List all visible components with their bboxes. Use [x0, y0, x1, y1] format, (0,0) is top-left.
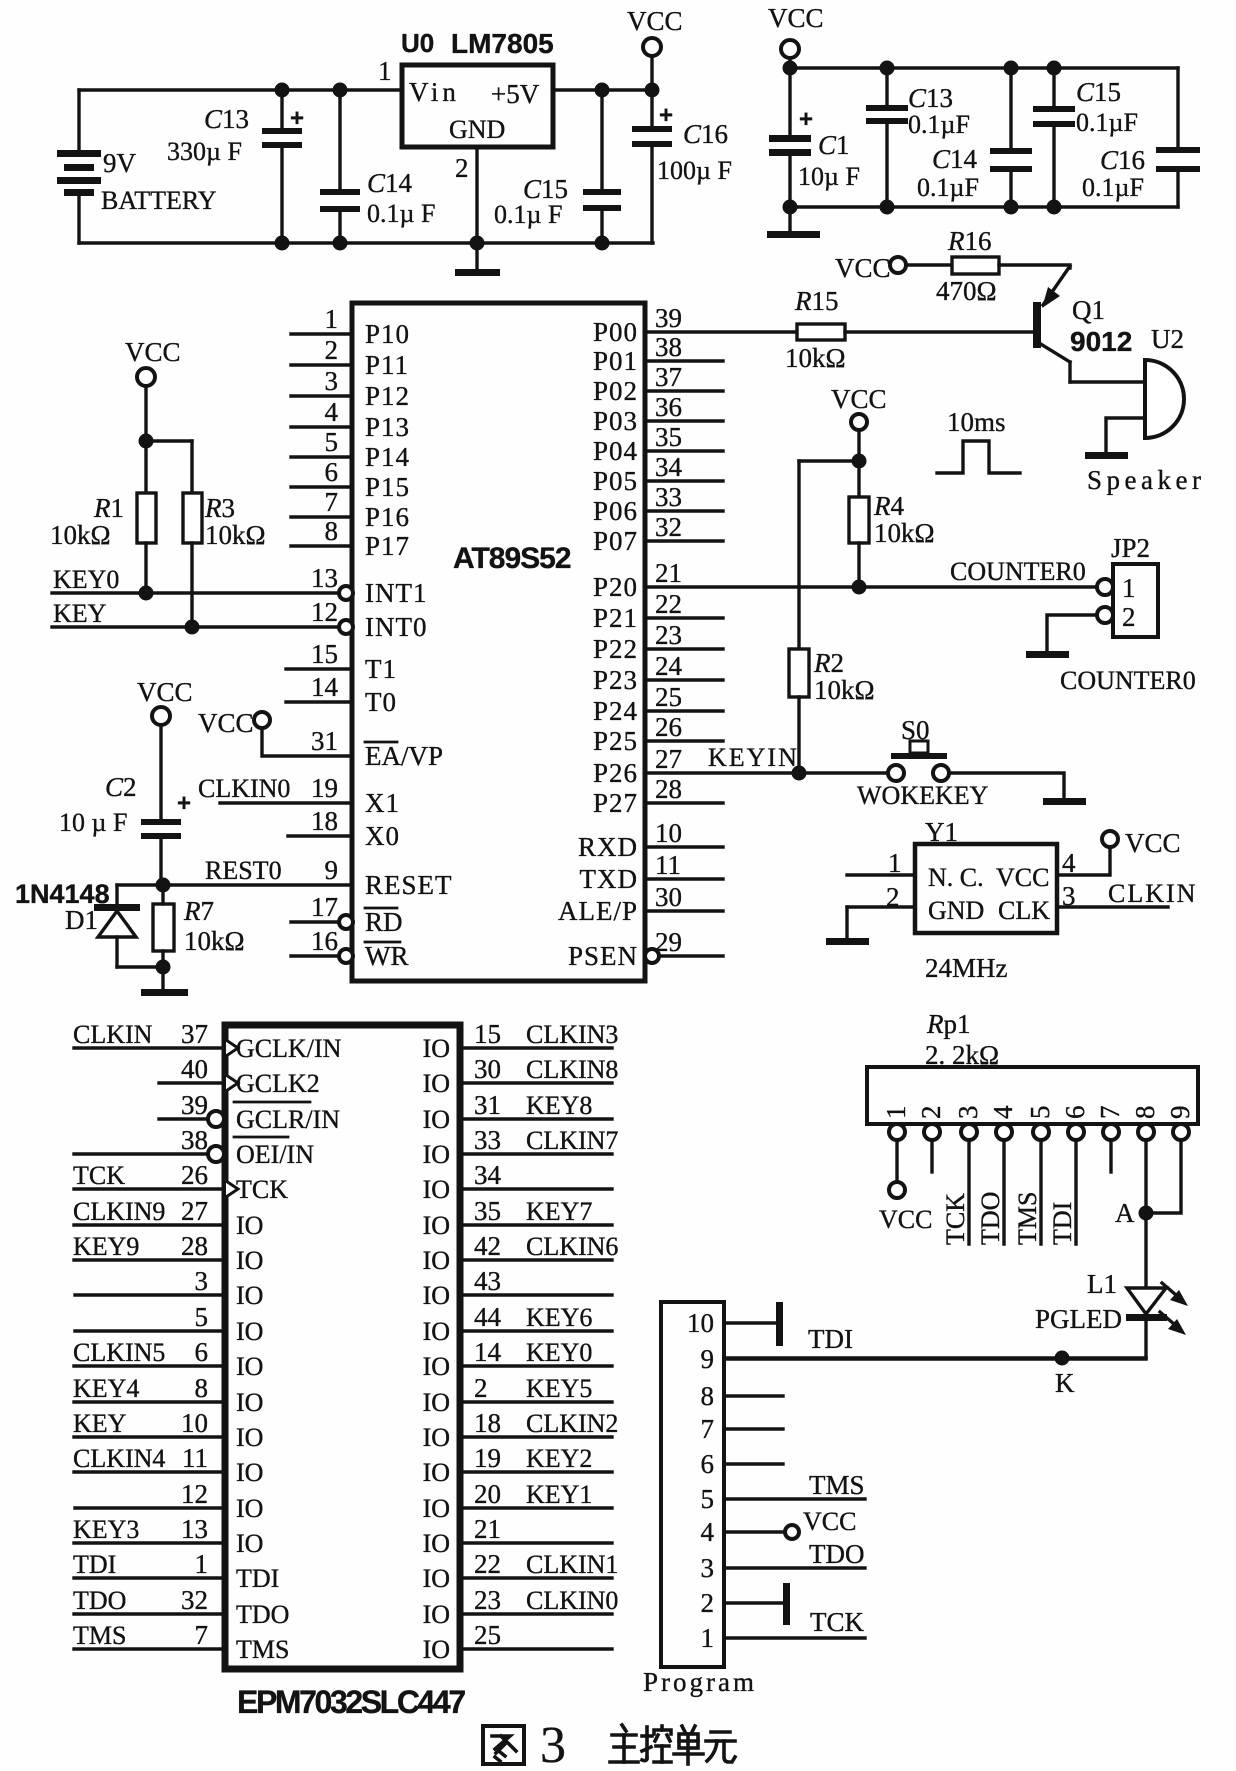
- svg-text:30: 30: [655, 882, 682, 912]
- svg-text:10µ F: 10µ F: [798, 162, 860, 191]
- wire J1 pin7: [724, 1427, 783, 1430]
- svg-text:Speaker: Speaker: [1087, 465, 1205, 495]
- svg-text:KEY1: KEY1: [526, 1480, 592, 1509]
- svg-text:CLKIN5: CLKIN5: [73, 1338, 165, 1367]
- U1 pin 23 P22: [645, 647, 723, 650]
- svg-text:TDO: TDO: [73, 1586, 126, 1615]
- svg-text:2: 2: [701, 1588, 715, 1618]
- U3 pin 22 IO: [460, 1576, 612, 1579]
- node RESET: [156, 878, 171, 893]
- svg-text:VCC: VCC: [879, 1205, 932, 1234]
- svg-text:P21: P21: [593, 603, 638, 633]
- wire D1 to R7 bottom: [117, 965, 163, 968]
- U3 pin 3 IO: [75, 1293, 225, 1296]
- U3 pin 18 IO: [460, 1435, 612, 1438]
- svg-text:CLKIN3: CLKIN3: [526, 1020, 618, 1049]
- svg-text:2: 2: [916, 1106, 946, 1120]
- wire J1 pin10: [724, 1321, 779, 1324]
- svg-text:CLKIN0: CLKIN0: [526, 1586, 618, 1615]
- svg-text:12: 12: [181, 1479, 208, 1509]
- Rp1 pin1 wire to VCC: [895, 1140, 898, 1182]
- svg-text:P07: P07: [593, 526, 638, 556]
- svg-text:IO: IO: [423, 1281, 450, 1310]
- wire KEYIN P26: [645, 771, 888, 774]
- node A: [1139, 1206, 1154, 1221]
- svg-text:P17: P17: [365, 531, 410, 561]
- svg-text:12: 12: [311, 597, 338, 627]
- wire to ground: [475, 243, 478, 270]
- svg-text:19: 19: [474, 1443, 501, 1473]
- svg-text:VCC: VCC: [831, 384, 887, 414]
- JP2 pin1: [1097, 579, 1113, 595]
- wire Q1 collector to speaker: [1070, 380, 1145, 383]
- svg-text:KEY7: KEY7: [526, 1197, 592, 1226]
- U3 pin 2 IO: [460, 1400, 612, 1403]
- svg-text:P22: P22: [593, 634, 638, 664]
- svg-text:TMS: TMS: [1013, 1192, 1042, 1245]
- svg-text:INT1: INT1: [365, 578, 427, 608]
- svg-text:RXD: RXD: [578, 832, 638, 862]
- battery BT 9V: [77, 90, 80, 150]
- wire J1 pin6: [724, 1462, 783, 1465]
- svg-text:10: 10: [181, 1408, 208, 1438]
- Rp1 pin2 wire: [930, 1140, 933, 1172]
- ground under C1: [767, 231, 820, 238]
- wire vcc rail top: [790, 66, 1178, 69]
- svg-text:10: 10: [655, 818, 682, 848]
- node R4/P20: [852, 580, 867, 595]
- svg-text:KEY9: KEY9: [73, 1232, 139, 1261]
- svg-text:TDI: TDI: [236, 1564, 279, 1593]
- svg-text:6: 6: [325, 457, 339, 487]
- U3 pin 11 IO: [74, 1470, 225, 1473]
- svg-text:TXD: TXD: [580, 864, 639, 894]
- svg-text:X0: X0: [365, 821, 400, 851]
- svg-text:C16: C16: [1100, 145, 1145, 175]
- svg-text:38: 38: [181, 1125, 208, 1155]
- svg-text:VCC: VCC: [137, 677, 193, 707]
- svg-text:8: 8: [195, 1373, 209, 1403]
- svg-text:IO: IO: [236, 1211, 263, 1240]
- svg-text:R1: R1: [93, 493, 124, 523]
- U1 pin 17 RD: [291, 920, 339, 923]
- svg-text:P06: P06: [593, 496, 638, 526]
- U3 pin 39 GCLR/IN: [159, 1117, 208, 1120]
- power VCC terminal Rp1: [889, 1182, 905, 1198]
- svg-text:OEI/IN: OEI/IN: [236, 1140, 314, 1169]
- caption 图 3 主控单元: [483, 1726, 524, 1764]
- svg-text:35: 35: [655, 422, 682, 452]
- wire branch to R3: [146, 439, 192, 442]
- U3 pin 31 IO: [460, 1117, 612, 1120]
- IC U1 AT89S52: [352, 303, 645, 981]
- svg-text:21: 21: [474, 1514, 501, 1544]
- svg-text:32: 32: [655, 512, 682, 542]
- svg-text:IO: IO: [423, 1352, 450, 1381]
- U1 pin 7 P16: [291, 515, 352, 518]
- U3 pin 40 GCLK2: [159, 1081, 225, 1084]
- svg-text:10kΩ: 10kΩ: [184, 926, 245, 956]
- svg-text:BATTERY: BATTERY: [101, 186, 217, 215]
- ground JP2: [1026, 651, 1069, 658]
- svg-text:TDO: TDO: [236, 1600, 289, 1629]
- svg-text:22: 22: [474, 1549, 501, 1579]
- svg-text:AT89S52: AT89S52: [453, 542, 571, 575]
- svg-text:Vin: Vin: [409, 77, 460, 107]
- svg-text:1: 1: [195, 1549, 209, 1579]
- svg-text:CLKIN: CLKIN: [1108, 879, 1197, 908]
- wire speaker to ground: [1106, 418, 1145, 452]
- U1 pin 26 P25: [645, 739, 723, 742]
- Rp1 pin8 wire node A: [1144, 1140, 1147, 1213]
- svg-text:1: 1: [881, 1106, 911, 1120]
- U1 pin 11 TXD: [645, 877, 723, 880]
- svg-text:IO: IO: [423, 1423, 450, 1452]
- svg-text:16: 16: [311, 926, 338, 956]
- svg-text:37: 37: [181, 1019, 208, 1049]
- wire TDI net to LED cathode: [724, 1356, 1146, 1359]
- svg-text:GND: GND: [449, 115, 505, 144]
- svg-text:10kΩ: 10kΩ: [205, 520, 266, 550]
- svg-text:42: 42: [474, 1231, 501, 1261]
- node U0 gnd: [470, 236, 485, 251]
- svg-text:9: 9: [1165, 1106, 1195, 1120]
- svg-text:Q1: Q1: [1072, 295, 1105, 325]
- svg-text:Program: Program: [643, 1667, 757, 1697]
- svg-text:GND: GND: [928, 896, 984, 925]
- svg-text:C2: C2: [105, 772, 137, 802]
- svg-text:43: 43: [474, 1266, 501, 1296]
- svg-text:P12: P12: [365, 381, 410, 411]
- U3 pin 12 IO: [75, 1506, 225, 1509]
- svg-text:P02: P02: [593, 376, 638, 406]
- Rp1 wire TMS: [1039, 1140, 1042, 1244]
- wire J1 pin9 TDI: [724, 1357, 1146, 1360]
- svg-text:TCK: TCK: [73, 1161, 125, 1190]
- svg-text:40: 40: [181, 1054, 208, 1084]
- svg-text:X1: X1: [365, 788, 400, 818]
- svg-text:P24: P24: [593, 696, 638, 726]
- svg-text:1: 1: [701, 1623, 715, 1653]
- svg-text:18: 18: [474, 1408, 501, 1438]
- node R2/KEYIN: [792, 766, 807, 781]
- svg-text:20: 20: [474, 1479, 501, 1509]
- svg-text:P27: P27: [593, 788, 638, 818]
- svg-text:32: 32: [181, 1585, 208, 1615]
- U3 pin 42 IO: [460, 1258, 612, 1261]
- ground reset: [141, 989, 188, 996]
- U3 pin 44 IO: [460, 1329, 612, 1332]
- svg-text:P13: P13: [365, 412, 410, 442]
- power VCC terminal Y1: [1102, 831, 1118, 847]
- svg-text:GCLK2: GCLK2: [236, 1069, 320, 1098]
- svg-text:KEY5: KEY5: [526, 1374, 592, 1403]
- U3 pin 30 IO: [460, 1081, 612, 1084]
- node C15 bottom: [595, 236, 610, 251]
- svg-text:28: 28: [181, 1231, 208, 1261]
- resistor R7 10k: [153, 904, 174, 951]
- node C13 top: [275, 83, 290, 98]
- wire J1 pin5 TMS: [724, 1497, 865, 1500]
- wire S0 to ground: [949, 773, 1064, 799]
- svg-text:27: 27: [655, 744, 682, 774]
- capacitor C16 100uF: [650, 90, 653, 127]
- svg-text:P26: P26: [593, 758, 638, 788]
- svg-text:KEY3: KEY3: [73, 1515, 139, 1544]
- wire J1 pin8: [724, 1394, 783, 1397]
- U3 pin 28 IO: [74, 1258, 225, 1261]
- svg-text:33: 33: [474, 1125, 501, 1155]
- node C1 bottom: [783, 200, 798, 215]
- node K: [1055, 1351, 1070, 1366]
- JP2 pin2: [1097, 607, 1113, 623]
- svg-text:28: 28: [655, 774, 682, 804]
- svg-text:IO: IO: [423, 1105, 450, 1134]
- svg-text:34: 34: [474, 1160, 502, 1190]
- svg-text:3: 3: [540, 1717, 566, 1771]
- svg-text:TDI: TDI: [808, 1324, 853, 1354]
- U3 pin 37 GCLK/IN: [74, 1046, 225, 1049]
- svg-text:U2: U2: [1151, 324, 1184, 354]
- capacitor C14 0.1uF: [338, 90, 341, 190]
- svg-text:22: 22: [655, 589, 682, 619]
- wire R15 to Q1 base: [845, 330, 1033, 333]
- U1 pin 33 P06: [645, 509, 723, 512]
- U1 pin 36 P03: [645, 419, 723, 422]
- svg-text:IO: IO: [423, 1175, 450, 1204]
- svg-text:C13: C13: [908, 83, 953, 113]
- svg-text:27: 27: [181, 1196, 208, 1226]
- svg-text:15: 15: [474, 1019, 501, 1049]
- U3 pin 13 IO: [74, 1541, 225, 1544]
- U1 pin 29 PSEN: [645, 949, 659, 963]
- svg-text:VCC: VCC: [198, 708, 254, 738]
- svg-text:7: 7: [195, 1620, 209, 1650]
- svg-text:2: 2: [325, 335, 339, 365]
- svg-text:KEY8: KEY8: [526, 1091, 592, 1120]
- svg-text:CLKIN: CLKIN: [73, 1020, 153, 1049]
- svg-text:10kΩ: 10kΩ: [814, 675, 875, 705]
- svg-text:10kΩ: 10kΩ: [874, 518, 935, 548]
- svg-text:2: 2: [1122, 602, 1136, 632]
- node VCC/C16: [645, 83, 660, 98]
- svg-text:TMS: TMS: [73, 1621, 126, 1650]
- svg-text:4: 4: [988, 1105, 1018, 1119]
- U3 pin 10 IO: [74, 1435, 225, 1438]
- wire P00 to R15: [645, 330, 797, 333]
- svg-text:IO: IO: [236, 1529, 263, 1558]
- transistor Q1 9012 PNP: [1033, 302, 1041, 348]
- svg-text:10: 10: [687, 1308, 714, 1338]
- regulator U0 LM7805: [402, 65, 553, 147]
- svg-text:11: 11: [182, 1443, 208, 1473]
- svg-text:C15: C15: [1076, 77, 1121, 107]
- svg-text:R15: R15: [794, 286, 839, 316]
- wire J1 pin4 VCC: [724, 1530, 784, 1533]
- node R1/R3 branch: [139, 434, 154, 449]
- node C13 bottom: [275, 236, 290, 251]
- svg-text:0.1µ F: 0.1µ F: [367, 199, 435, 228]
- node C14 top: [333, 83, 348, 98]
- wire R16 to Q1 emitter: [999, 265, 1070, 268]
- svg-text:INT0: INT0: [365, 612, 427, 642]
- svg-text:P00: P00: [593, 317, 638, 347]
- svg-text:TCK: TCK: [236, 1175, 288, 1204]
- svg-text:P11: P11: [365, 350, 409, 380]
- svg-text:C14: C14: [932, 144, 978, 174]
- svg-text:25: 25: [474, 1620, 501, 1650]
- svg-text:IO: IO: [423, 1317, 450, 1346]
- svg-text:IO: IO: [423, 1564, 450, 1593]
- svg-text:15: 15: [311, 639, 338, 669]
- U1 pin 1 P10: [291, 332, 352, 335]
- svg-text:14: 14: [311, 672, 339, 702]
- svg-text:C13: C13: [204, 104, 249, 134]
- U3 pin 26 TCK: [74, 1187, 225, 1190]
- wire J1 pin2: [724, 1601, 786, 1604]
- svg-text:TDI: TDI: [1048, 1202, 1077, 1245]
- svg-text:23: 23: [474, 1585, 501, 1615]
- svg-text:IO: IO: [423, 1600, 450, 1629]
- resistor R2 10k: [797, 461, 800, 649]
- svg-text:PGLED: PGLED: [1035, 1304, 1122, 1334]
- svg-text:7: 7: [325, 487, 339, 517]
- svg-text:EPM7032SLC447: EPM7032SLC447: [237, 1684, 465, 1720]
- U1 pin 38 P01: [645, 359, 723, 362]
- svg-text:10ms: 10ms: [947, 407, 1006, 437]
- svg-text:RD: RD: [365, 907, 403, 937]
- svg-text:VCC: VCC: [768, 3, 824, 33]
- Rp1 pin9 wire: [1146, 1140, 1181, 1213]
- node C14b top: [1004, 61, 1019, 76]
- U3 pin 20 IO: [460, 1506, 612, 1509]
- svg-text:31: 31: [474, 1090, 501, 1120]
- svg-text:IO: IO: [423, 1388, 450, 1417]
- svg-text:5: 5: [195, 1302, 209, 1332]
- svg-text:3: 3: [953, 1106, 983, 1120]
- svg-text:P15: P15: [365, 472, 410, 502]
- node R1/KEY0: [139, 586, 154, 601]
- svg-text:CLKIN0: CLKIN0: [198, 774, 290, 803]
- ground S0: [1043, 798, 1086, 805]
- svg-text:IO: IO: [423, 1494, 450, 1523]
- capacitor C13 330uF: [280, 90, 283, 129]
- svg-text:P01: P01: [593, 346, 638, 376]
- wire P20 COUNTER0: [645, 585, 1097, 588]
- svg-text:IO: IO: [236, 1352, 263, 1381]
- svg-text:VCC: VCC: [996, 863, 1049, 892]
- svg-text:8: 8: [1130, 1106, 1160, 1120]
- svg-text:35: 35: [474, 1196, 501, 1226]
- svg-text:26: 26: [181, 1160, 208, 1190]
- svg-text:T1: T1: [365, 654, 397, 684]
- wire junction to R2 branch: [799, 459, 859, 462]
- wire J1 pin1 TCK: [724, 1636, 865, 1639]
- svg-text:TMS: TMS: [236, 1635, 289, 1664]
- U1 pin 13 INT1: [339, 586, 353, 600]
- U1 pin 34 P05: [645, 479, 723, 482]
- svg-text:IO: IO: [423, 1034, 450, 1063]
- svg-text:1: 1: [1122, 573, 1136, 603]
- svg-text:13: 13: [311, 563, 338, 593]
- svg-text:9: 9: [325, 855, 339, 885]
- svg-text:PSEN: PSEN: [568, 941, 638, 971]
- svg-text:D1: D1: [65, 905, 98, 935]
- svg-text:9012: 9012: [1070, 326, 1132, 357]
- svg-text:9V: 9V: [103, 148, 137, 178]
- svg-text:R7: R7: [183, 896, 214, 926]
- svg-text:+: +: [799, 106, 813, 133]
- svg-text:470Ω: 470Ω: [936, 276, 997, 306]
- capacitor C16b 0.1uF: [1156, 147, 1200, 153]
- svg-text:IO: IO: [423, 1458, 450, 1487]
- svg-text:100µ F: 100µ F: [657, 156, 732, 185]
- svg-text:33: 33: [655, 482, 682, 512]
- svg-text:CLK: CLK: [998, 896, 1050, 925]
- svg-text:14: 14: [474, 1337, 502, 1367]
- svg-text:30: 30: [474, 1054, 501, 1084]
- svg-text:IO: IO: [236, 1281, 263, 1310]
- svg-text:6: 6: [195, 1337, 209, 1367]
- svg-text:TMS: TMS: [809, 1470, 865, 1500]
- svg-text:25: 25: [655, 682, 682, 712]
- svg-text:P23: P23: [593, 665, 638, 695]
- svg-text:IO: IO: [423, 1246, 450, 1275]
- node R7 bottom: [156, 960, 171, 975]
- U3 pin 1 TDI: [74, 1576, 225, 1579]
- U3 pin 14 IO: [460, 1364, 612, 1367]
- svg-text:3: 3: [325, 366, 339, 396]
- svg-text:P04: P04: [593, 436, 638, 466]
- U1 pin 16 WR: [291, 954, 339, 957]
- svg-text:CLKIN6: CLKIN6: [526, 1232, 618, 1261]
- svg-text:0.1µF: 0.1µF: [908, 110, 970, 139]
- svg-text:10kΩ: 10kΩ: [785, 343, 846, 373]
- wire Y1 pin4 to VCC: [1057, 847, 1110, 875]
- wire J1 pin3 TDO: [724, 1566, 865, 1569]
- svg-text:R16: R16: [947, 226, 992, 256]
- svg-text:21: 21: [655, 558, 682, 588]
- resistor R3 10k: [183, 493, 202, 543]
- svg-text:WOKEKEY: WOKEKEY: [857, 781, 989, 810]
- U1 pin 25 P24: [645, 709, 723, 712]
- U3 pin 7 TMS: [74, 1647, 225, 1650]
- svg-text:IO: IO: [423, 1211, 450, 1240]
- svg-text:P05: P05: [593, 466, 638, 496]
- svg-text:VCC: VCC: [627, 6, 683, 36]
- svg-text:KEY0: KEY0: [526, 1338, 592, 1367]
- svg-text:+: +: [177, 790, 191, 817]
- U1 pin 12 INT0: [339, 620, 353, 634]
- U1 pin 6 P15: [291, 485, 352, 488]
- svg-text:GCLR/IN: GCLR/IN: [236, 1105, 340, 1134]
- svg-text:IO: IO: [236, 1494, 263, 1523]
- wire ground rail bottom: [79, 241, 653, 244]
- U3 pin 38 OEI/IN: [74, 1152, 208, 1155]
- svg-text:CLKIN2: CLKIN2: [526, 1409, 618, 1438]
- node R3/KEY: [185, 620, 200, 635]
- svg-text:38: 38: [655, 332, 682, 362]
- svg-text:5: 5: [325, 427, 339, 457]
- svg-text:+: +: [290, 105, 304, 132]
- svg-text:IO: IO: [236, 1458, 263, 1487]
- svg-text:+: +: [659, 102, 673, 129]
- U1 pin 19 X1: [220, 801, 352, 804]
- svg-text:KEY: KEY: [53, 599, 107, 628]
- svg-text:KEY2: KEY2: [526, 1444, 592, 1473]
- svg-text:IO: IO: [236, 1317, 263, 1346]
- svg-text:4: 4: [701, 1517, 715, 1547]
